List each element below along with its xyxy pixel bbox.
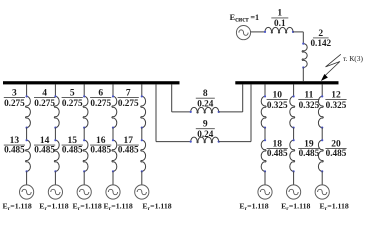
- reactor 19 (0.485): [290, 140, 295, 171]
- reactor 9 (0.24): [191, 137, 219, 143]
- wire: [141, 128, 143, 141]
- reactor 4 (0.275): [54, 96, 59, 127]
- svg-text:Eг=1.118: Eг=1.118: [239, 201, 268, 211]
- svg-text:0.485: 0.485: [118, 145, 139, 155]
- wire: [83, 128, 85, 141]
- svg-text:Eг=1.118: Eг=1.118: [320, 201, 349, 211]
- reactor 13 (0.485): [26, 140, 31, 171]
- wire link 8 right: [219, 111, 243, 113]
- reactor 5 (0.275): [83, 96, 88, 127]
- generator G15: [77, 185, 91, 199]
- svg-text:т. К(3): т. К(3): [343, 54, 363, 63]
- branch 3 wire from bus: [26, 84, 28, 96]
- svg-text:0.275: 0.275: [90, 98, 111, 108]
- svg-text:0.485: 0.485: [90, 145, 111, 155]
- branch 11 wire from bus: [293, 84, 295, 96]
- reactor 20 (0.485): [318, 140, 323, 171]
- wire link 8 left: [171, 84, 173, 112]
- reactor 2 (0.142): [302, 44, 307, 68]
- wire: [251, 31, 265, 33]
- wire: [26, 128, 28, 141]
- svg-text:0.485: 0.485: [4, 145, 25, 155]
- short-circuit bolt K(3): [324, 54, 341, 77]
- svg-text:0.325: 0.325: [267, 100, 288, 110]
- reactor 8 (0.24): [191, 107, 219, 113]
- svg-text:0.275: 0.275: [4, 98, 25, 108]
- svg-text:0.485: 0.485: [326, 148, 347, 158]
- generator G16: [106, 185, 120, 199]
- svg-text:0.485: 0.485: [62, 145, 83, 155]
- svg-text:Eг=1.118: Eг=1.118: [39, 201, 68, 211]
- wire: [26, 171, 28, 185]
- svg-text:0.325: 0.325: [326, 100, 347, 110]
- generator G19: [287, 185, 301, 199]
- wire: [112, 128, 114, 141]
- wire: [293, 31, 303, 33]
- svg-text:Eг=1.118: Eг=1.118: [142, 201, 171, 211]
- reactor 14 (0.485): [54, 140, 59, 171]
- reactor 1 (0.1): [265, 27, 293, 33]
- svg-text:0.24: 0.24: [197, 98, 213, 108]
- reactor 17 (0.485): [141, 140, 146, 171]
- svg-text:0.275: 0.275: [62, 98, 83, 108]
- svg-text:0.485: 0.485: [34, 145, 55, 155]
- svg-text:0.325: 0.325: [299, 100, 320, 110]
- wire: [54, 128, 56, 141]
- generator G17: [135, 185, 149, 199]
- reactor 18 (0.485): [261, 140, 266, 171]
- reactor 10 (0.325): [261, 96, 266, 127]
- reactor 11 (0.325): [290, 96, 295, 127]
- branch 7 wire from bus: [141, 84, 143, 96]
- svg-text:Eг=1.118: Eг=1.118: [281, 201, 310, 211]
- wire: [112, 171, 114, 185]
- reactor 12 (0.325): [318, 96, 323, 127]
- reactor 7 (0.275): [141, 96, 146, 127]
- reactor 6 (0.275): [112, 96, 117, 127]
- branch 4 wire from bus: [54, 84, 56, 96]
- branch 12 wire from bus: [321, 84, 323, 96]
- wire: [54, 171, 56, 185]
- branch 6 wire from bus: [112, 84, 114, 96]
- branch 5 wire from bus: [83, 84, 85, 96]
- generator G18: [258, 185, 272, 199]
- svg-text:0.24: 0.24: [197, 129, 213, 139]
- svg-text:0.1: 0.1: [274, 18, 286, 28]
- wire: [293, 128, 295, 141]
- generator G13: [20, 185, 34, 199]
- reactor 15 (0.485): [83, 140, 88, 171]
- svg-text:0.485: 0.485: [299, 148, 320, 158]
- svg-text:0.142: 0.142: [310, 38, 331, 48]
- wire: [293, 171, 295, 185]
- wire: [321, 128, 323, 141]
- svg-text:1: 1: [277, 8, 282, 18]
- wire: [83, 171, 85, 185]
- branch 10 wire from bus: [264, 84, 266, 96]
- wire: [264, 171, 266, 185]
- wire: [141, 171, 143, 185]
- svg-text:0.485: 0.485: [267, 148, 288, 158]
- wire: [302, 68, 304, 82]
- generator G_sist: [236, 25, 250, 39]
- svg-text:Eг=1.118: Eг=1.118: [3, 201, 32, 211]
- reactor 3 (0.275): [26, 96, 31, 127]
- generator G14: [48, 185, 62, 199]
- right bus: [235, 81, 338, 84]
- left bus: [3, 81, 180, 84]
- svg-text:0.275: 0.275: [34, 98, 55, 108]
- wire: [264, 128, 266, 141]
- svg-text:Eг=1.118: Eг=1.118: [104, 201, 133, 211]
- wire link 9 left: [155, 84, 157, 141]
- reactor 16 (0.485): [112, 140, 117, 171]
- svg-text:0.275: 0.275: [118, 98, 139, 108]
- svg-text:Eг=1.118: Eг=1.118: [73, 201, 102, 211]
- wire: [321, 171, 323, 185]
- wire link 9 right: [219, 141, 251, 143]
- generator G20: [315, 185, 329, 199]
